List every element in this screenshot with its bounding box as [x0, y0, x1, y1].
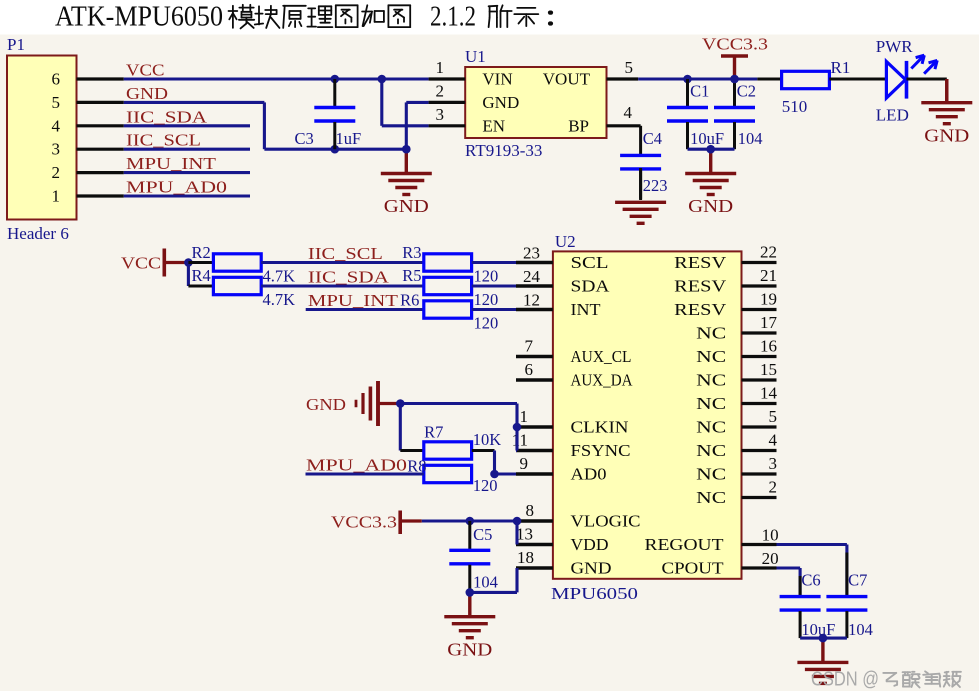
svg-text:12: 12	[523, 291, 540, 310]
svg-text:R6: R6	[400, 291, 419, 310]
svg-text:R5: R5	[402, 266, 421, 285]
svg-text:MPU_AD0: MPU_AD0	[306, 456, 407, 475]
svg-text:BP: BP	[568, 116, 589, 135]
svg-text:IIC_SDA: IIC_SDA	[126, 107, 208, 126]
svg-text:MPU6050: MPU6050	[551, 584, 638, 603]
svg-text:IIC_SCL: IIC_SCL	[308, 244, 383, 263]
svg-text:4: 4	[52, 116, 61, 135]
svg-text:223: 223	[643, 176, 668, 195]
svg-text:16: 16	[760, 337, 777, 356]
svg-text:120: 120	[474, 313, 499, 332]
svg-text:R2: R2	[192, 243, 211, 262]
svg-text:C7: C7	[848, 571, 867, 590]
svg-text:120: 120	[473, 476, 498, 495]
svg-text:6: 6	[52, 70, 61, 89]
svg-text:EN: EN	[482, 116, 505, 135]
svg-text:120: 120	[474, 290, 499, 309]
svg-text:15: 15	[760, 360, 777, 379]
svg-text:120: 120	[474, 266, 499, 285]
svg-text:REGOUT: REGOUT	[645, 535, 725, 554]
svg-text:GND: GND	[482, 93, 519, 112]
svg-text:1: 1	[436, 58, 445, 77]
svg-text:LED: LED	[876, 106, 909, 125]
svg-text:VLOGIC: VLOGIC	[571, 512, 641, 531]
svg-text:17: 17	[760, 313, 778, 332]
svg-text:CSDN @: CSDN @	[811, 669, 879, 691]
svg-text:R7: R7	[424, 422, 443, 441]
svg-text:2: 2	[769, 478, 778, 497]
svg-text:4.7K: 4.7K	[263, 290, 296, 309]
svg-text:U1: U1	[465, 47, 486, 66]
svg-text:1: 1	[52, 187, 61, 206]
svg-text:NC: NC	[696, 488, 726, 507]
svg-text:GND: GND	[924, 125, 969, 145]
svg-text:MPU_INT: MPU_INT	[308, 291, 399, 310]
svg-text:VDD: VDD	[571, 535, 609, 554]
svg-text:7: 7	[525, 337, 534, 356]
svg-text:NC: NC	[696, 441, 726, 460]
svg-text:R1: R1	[831, 58, 851, 77]
svg-text:10K: 10K	[473, 430, 502, 449]
svg-text:104: 104	[848, 620, 873, 639]
svg-text:IIC_SDA: IIC_SDA	[308, 268, 390, 287]
svg-text:C1: C1	[690, 81, 709, 100]
svg-text:IIC_SCL: IIC_SCL	[126, 131, 201, 150]
svg-text:3: 3	[436, 105, 445, 124]
svg-text:GND: GND	[571, 559, 612, 578]
svg-text:Header 6: Header 6	[7, 224, 69, 243]
svg-text:3: 3	[769, 454, 778, 473]
svg-text:C4: C4	[643, 129, 662, 148]
svg-text:10: 10	[762, 526, 779, 545]
svg-text:8: 8	[526, 501, 535, 520]
svg-text:6: 6	[525, 360, 534, 379]
svg-text:NC: NC	[696, 324, 726, 343]
svg-text:104: 104	[738, 129, 763, 148]
svg-text:5: 5	[625, 58, 634, 77]
svg-text:19: 19	[760, 290, 777, 309]
svg-text:20: 20	[762, 549, 779, 568]
svg-text:1uF: 1uF	[336, 129, 362, 148]
svg-text:MPU_INT: MPU_INT	[126, 154, 217, 173]
svg-text:VCC3.3: VCC3.3	[331, 513, 397, 532]
svg-text:4: 4	[624, 103, 633, 122]
svg-text:INT: INT	[571, 300, 602, 319]
svg-text:PWR: PWR	[876, 37, 914, 56]
svg-text:VIN: VIN	[482, 70, 512, 89]
svg-text:AUX_DA: AUX_DA	[571, 371, 634, 390]
svg-text:ATK-MPU6050: ATK-MPU6050	[55, 1, 223, 33]
svg-text:SDA: SDA	[571, 277, 611, 296]
svg-text:P1: P1	[7, 35, 25, 54]
svg-text:GND: GND	[688, 196, 733, 216]
svg-text:C6: C6	[801, 571, 820, 590]
svg-text:10uF: 10uF	[690, 129, 724, 148]
svg-text:510: 510	[782, 97, 808, 116]
svg-text:5: 5	[769, 407, 778, 426]
svg-text:CLKIN: CLKIN	[571, 418, 629, 437]
svg-text:NC: NC	[696, 465, 726, 484]
svg-text:FSYNC: FSYNC	[571, 441, 631, 460]
svg-text:C3: C3	[295, 129, 314, 148]
svg-text:R4: R4	[192, 266, 211, 285]
svg-text:GND: GND	[447, 639, 492, 659]
svg-text:11: 11	[512, 431, 528, 450]
svg-text:VCC3.3: VCC3.3	[702, 35, 768, 54]
svg-text:23: 23	[523, 244, 540, 263]
svg-text:104: 104	[473, 572, 498, 591]
svg-text:VCC: VCC	[126, 61, 165, 80]
svg-text:1: 1	[520, 407, 529, 426]
svg-text:2: 2	[436, 81, 445, 100]
svg-text:U2: U2	[555, 232, 576, 251]
svg-text:C2: C2	[737, 81, 756, 100]
svg-text:9: 9	[520, 454, 529, 473]
svg-text:SCL: SCL	[571, 253, 609, 272]
svg-text:NC: NC	[696, 347, 726, 366]
svg-text:NC: NC	[696, 418, 726, 437]
svg-text:18: 18	[517, 548, 534, 567]
svg-text:2.1.2: 2.1.2	[430, 2, 476, 33]
svg-text:VOUT: VOUT	[543, 70, 591, 89]
svg-text:2: 2	[52, 163, 61, 182]
svg-text:RESV: RESV	[674, 277, 727, 296]
svg-text:GND: GND	[126, 84, 168, 103]
svg-text:21: 21	[760, 266, 777, 285]
svg-text:RESV: RESV	[674, 253, 727, 272]
svg-text:C5: C5	[473, 525, 492, 544]
svg-text:RT9193-33: RT9193-33	[465, 141, 542, 160]
svg-text:VCC: VCC	[121, 253, 161, 272]
svg-text:4: 4	[769, 431, 778, 450]
svg-text:AUX_CL: AUX_CL	[571, 347, 632, 366]
svg-text:NC: NC	[696, 371, 726, 390]
svg-text:MPU_AD0: MPU_AD0	[126, 178, 227, 197]
svg-text:R8: R8	[407, 457, 426, 476]
svg-text:GND: GND	[384, 196, 429, 216]
svg-text:GND: GND	[306, 395, 346, 414]
svg-text:NC: NC	[696, 394, 726, 413]
svg-text:22: 22	[760, 243, 777, 262]
svg-text:R3: R3	[402, 243, 421, 262]
svg-text:10uF: 10uF	[801, 620, 835, 639]
svg-text:14: 14	[760, 384, 778, 403]
svg-text:24: 24	[523, 267, 541, 286]
svg-text:RESV: RESV	[674, 300, 727, 319]
svg-text:CPOUT: CPOUT	[662, 559, 725, 578]
svg-text:3: 3	[52, 140, 61, 159]
svg-text:4.7K: 4.7K	[263, 266, 296, 285]
svg-text:AD0: AD0	[571, 465, 607, 484]
svg-text:5: 5	[52, 93, 61, 112]
